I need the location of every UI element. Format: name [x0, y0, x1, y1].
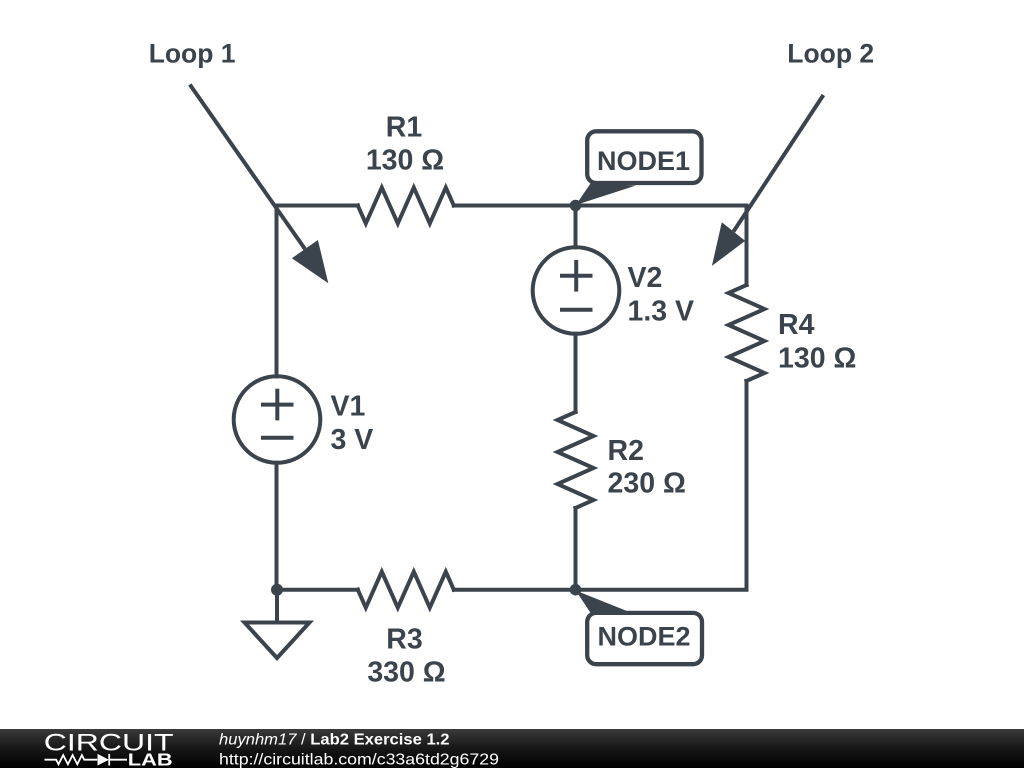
wire bottom segment left (node to R3) [277, 588, 358, 592]
node dot NODE1 junction [570, 200, 582, 212]
wire middle bottom (R2 to NODE2) [574, 508, 578, 590]
annotation arrow Loop 2 [712, 95, 824, 266]
svg-text:NODE2: NODE2 [597, 622, 690, 652]
CircuitLab logo resistor-diode symbol [45, 754, 128, 766]
node dot NODE2 junction [570, 584, 582, 596]
wire left vertical lower (V1 to bottom node) [275, 463, 279, 590]
svg-text:LAB: LAB [128, 749, 173, 768]
resistor R2 [558, 412, 594, 508]
wire middle (V2 to R2) [574, 334, 578, 412]
voltage source V1 [234, 376, 321, 463]
footer bar [0, 729, 1024, 768]
resistor R4 [729, 285, 765, 381]
resistor R3 [358, 572, 454, 608]
ground [245, 590, 310, 658]
resistor R1 [358, 188, 454, 224]
node dot bottom-left junction [271, 584, 283, 596]
node flag NODE2 [576, 591, 702, 665]
node flag NODE1 [576, 131, 702, 205]
svg-text:huynhm17 / Lab2 Exercise 1.2: huynhm17 / Lab2 Exercise 1.2 [219, 732, 450, 749]
svg-text:NODE1: NODE1 [597, 146, 690, 176]
wire top segment right (R1 to right corner) [454, 206, 747, 286]
voltage source V2 [533, 247, 620, 334]
wire middle top (NODE1 to V2) [574, 206, 578, 248]
annotation arrow Loop 1 [190, 85, 328, 284]
svg-text:http://circuitlab.com/c33a6td2: http://circuitlab.com/c33a6td2g6729 [219, 751, 499, 768]
wire top segment left (corner to R1) [277, 206, 358, 377]
svg-text:Loop 1: Loop 1 [149, 39, 236, 69]
wire bottom segment right (R3 to right corner) [454, 381, 747, 590]
svg-text:Loop 2: Loop 2 [787, 39, 874, 69]
